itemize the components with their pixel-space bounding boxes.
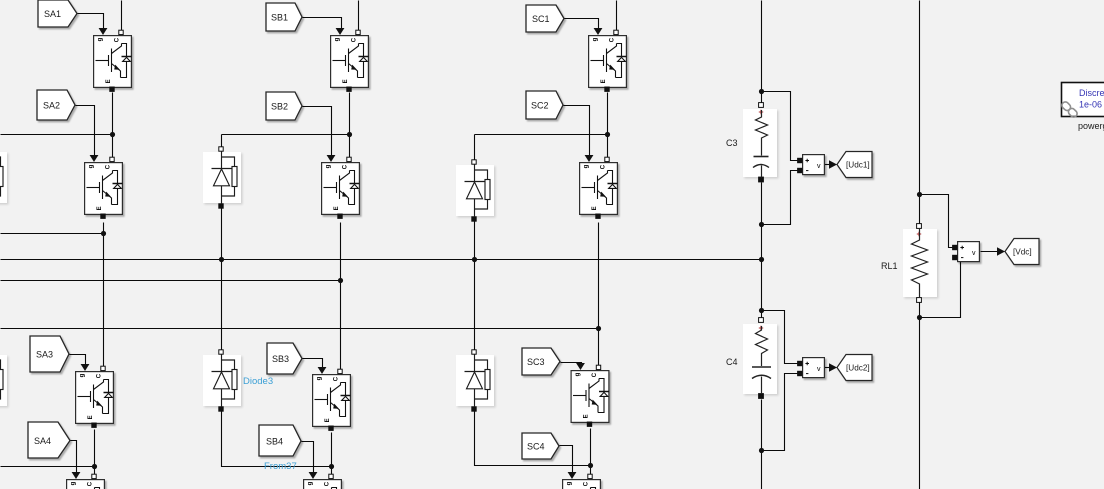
from tag SA4 xyxy=(28,422,70,458)
from tag SB3 xyxy=(267,343,302,374)
svg-text:powergui: powergui xyxy=(1078,121,1104,131)
IGBT A1 xyxy=(94,28,132,91)
IGBT A4 xyxy=(67,472,105,489)
wire: phase A lower clamp link xyxy=(1,466,95,468)
svg-text:RL1: RL1 xyxy=(881,261,898,271)
node: C upper clamp junction xyxy=(605,132,610,137)
svg-text:Discrete: Discrete xyxy=(1079,88,1104,98)
wire: A1 emitter to A2 collector xyxy=(112,93,114,158)
IGBT B4 xyxy=(304,472,342,489)
clamp diode A lower (offscreen left) xyxy=(0,350,7,411)
IGBT C2 xyxy=(580,155,618,218)
wire: diode column B upper-lower xyxy=(221,209,223,351)
wire: C2 emitter to C3 collector xyxy=(598,223,600,366)
goto tag [Udc1] xyxy=(829,152,872,178)
svg-text:From37: From37 xyxy=(264,461,297,472)
svg-text:SB2: SB2 xyxy=(271,102,288,112)
IGBT A3 xyxy=(76,364,114,427)
wire: V3 output to Vdc xyxy=(981,251,1000,253)
wire: DC rail bottom segment xyxy=(761,400,763,489)
svg-text:C4: C4 xyxy=(726,357,738,367)
wire: DC rail C3-C4 segment xyxy=(761,183,763,318)
wire: C3 emitter to C4 collector xyxy=(590,429,592,475)
IGBT B1 xyxy=(331,28,369,91)
svg-text:[Udc1]: [Udc1] xyxy=(846,161,870,170)
wire: SA2 to gate A2 xyxy=(76,106,95,156)
clamp diode C lower xyxy=(456,350,494,411)
svg-text:SB4: SB4 xyxy=(266,437,283,447)
clamp diode A upper (offscreen left) xyxy=(0,147,7,208)
wire: SC1 to gate C1 xyxy=(565,19,599,29)
from tag SB4 xyxy=(259,425,301,456)
voltage measurement V3 xyxy=(953,242,980,262)
svg-text:SA1: SA1 xyxy=(44,9,61,19)
node: A lower clamp junction xyxy=(92,464,97,469)
node: A upper clamp junction xyxy=(110,132,115,137)
wire: SA1 to gate A1 xyxy=(78,14,104,29)
node: DC rail V1 minus xyxy=(759,222,764,227)
svg-text:SC4: SC4 xyxy=(527,442,545,452)
wire: diode column C bottom link xyxy=(475,412,591,466)
IGBT C4i xyxy=(563,472,601,489)
svg-text:SA3: SA3 xyxy=(36,350,53,360)
wire: DC rail top segment xyxy=(761,1,763,103)
node: neutral at diode B xyxy=(219,257,224,262)
wire: V2 minus lead xyxy=(762,374,798,451)
node: phase C output junction xyxy=(596,326,601,331)
wire: phase B output line xyxy=(1,280,341,282)
node: neutral at diode C xyxy=(472,257,477,262)
wire: B2 emitter to B3 collector xyxy=(340,223,342,370)
wire: SA3 to gate A3 xyxy=(70,355,86,365)
from tag SC1 xyxy=(526,5,564,32)
wire: V2 plus lead xyxy=(762,311,798,364)
resistor RL1 xyxy=(903,224,937,303)
wire: neutral bus xyxy=(1,259,762,261)
wire: SA4 to gate A4 xyxy=(71,441,77,473)
IGBT C3i xyxy=(571,363,609,426)
clamp diode B upper xyxy=(203,147,241,208)
wire: A3 emitter to A4 collector xyxy=(94,430,96,475)
svg-text:Diode3: Diode3 xyxy=(243,376,273,387)
wire: diode column C upper-lower xyxy=(474,222,476,351)
wire: V1 output to Udc1 xyxy=(825,164,832,166)
node: DC rail V2 plus xyxy=(759,308,764,313)
node: DC rail neutral xyxy=(759,257,764,262)
svg-text:C3: C3 xyxy=(726,138,738,148)
voltage measurement V2 xyxy=(798,358,825,378)
wire: load rail top segment xyxy=(919,1,921,225)
wire: C1 emitter to C2 collector xyxy=(607,93,609,158)
from tag SC3 xyxy=(522,348,560,375)
wire: phase C output line xyxy=(1,328,599,330)
node: B lower clamp junction xyxy=(329,464,334,469)
from tag SA1 xyxy=(38,0,77,27)
node: C lower clamp junction xyxy=(588,463,593,468)
svg-text:[Udc2]: [Udc2] xyxy=(846,364,870,373)
from tag SB1 xyxy=(266,3,302,31)
wire: SB1 to gate B1 xyxy=(303,18,342,29)
wire: SB2 to gate B2 xyxy=(303,107,332,156)
wire: B1 collector to top edge xyxy=(358,1,360,31)
wire: load rail bottom segment xyxy=(919,303,921,489)
svg-text:[Vdc]: [Vdc] xyxy=(1013,248,1032,257)
wire: C1 collector to top edge xyxy=(616,1,618,31)
wire: A1 collector to top edge xyxy=(121,1,123,31)
IGBT B2 xyxy=(322,155,360,218)
svg-text:SB3: SB3 xyxy=(272,354,289,364)
wire: V1 plus lead xyxy=(762,92,798,161)
node: phase B output junction xyxy=(338,278,343,283)
wire: SC3 to gate C3 xyxy=(561,363,582,364)
wire: V2 output to Udc2 xyxy=(825,367,832,369)
wire: SB4 to gate B4 xyxy=(302,442,314,473)
svg-text:SA4: SA4 xyxy=(34,436,51,446)
svg-text:SC1: SC1 xyxy=(532,14,550,24)
wire: phase C upper clamp link xyxy=(475,134,608,136)
node: B upper clamp junction xyxy=(347,132,352,137)
voltage measurement V1 xyxy=(798,155,825,175)
IGBT B3 xyxy=(313,367,351,430)
capacitor branch C3 xyxy=(743,103,777,182)
from tag SA3 xyxy=(30,336,69,372)
powergui block xyxy=(1061,83,1104,119)
node: load rail top xyxy=(917,192,922,197)
IGBT C1 xyxy=(589,28,627,91)
clamp diode C upper xyxy=(456,160,494,221)
node: phase A output junction xyxy=(101,231,106,236)
wire: phase A upper clamp link xyxy=(1,134,113,136)
from tag SA2 xyxy=(37,90,75,120)
svg-text:SC3: SC3 xyxy=(527,357,545,367)
IGBT A2 xyxy=(85,155,123,218)
wire: B1 emitter to B2 collector xyxy=(349,93,351,158)
svg-text:1e-06 s.: 1e-06 s. xyxy=(1079,100,1104,110)
node: load rail bottom xyxy=(917,315,922,320)
wire: diode column B bottom link xyxy=(222,412,332,467)
goto tag [Udc2] xyxy=(829,355,872,381)
from tag SC4 xyxy=(522,433,559,459)
wire: phase B upper clamp link xyxy=(222,134,350,136)
wire: V1 minus lead xyxy=(762,171,798,225)
svg-text:SA2: SA2 xyxy=(43,101,60,111)
svg-text:SC2: SC2 xyxy=(531,101,549,111)
svg-text:SB1: SB1 xyxy=(271,13,288,23)
node: DC rail V1 plus xyxy=(759,89,764,94)
wire: B3 emitter to B4 collector xyxy=(331,433,333,475)
wire: SC2 to gate C2 xyxy=(564,106,590,156)
capacitor branch C4 xyxy=(743,318,777,399)
clamp diode B lower (Diode3) xyxy=(203,350,241,411)
wire: V3 plus lead xyxy=(920,195,953,248)
from tag SB2 xyxy=(266,92,302,120)
wire: SC4 to gate C4 xyxy=(560,446,573,473)
wire: phase A output line xyxy=(1,233,104,235)
from tag SC2 xyxy=(526,91,563,119)
wire: SB3 to gate B3 xyxy=(303,359,323,368)
goto tag [Vdc] xyxy=(997,239,1039,265)
wire: A2 emitter to A3 collector xyxy=(103,223,105,367)
wire: V3 minus lead xyxy=(920,258,961,318)
node: DC rail V2 minus xyxy=(759,448,764,453)
